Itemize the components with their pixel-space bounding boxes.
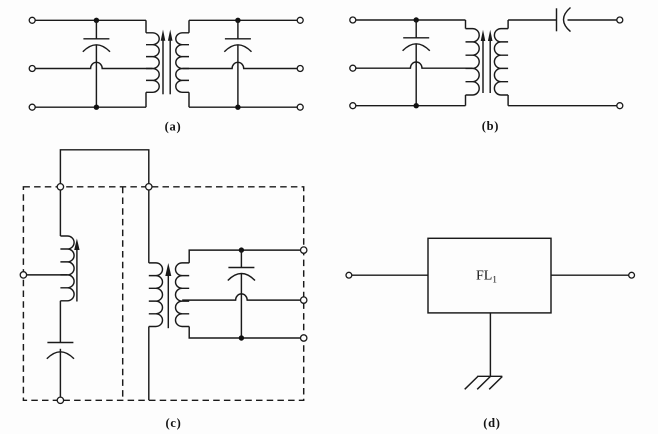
terminal: (c) right port top	[301, 247, 307, 253]
core arrow of transformer T1 (c)	[167, 275, 169, 328]
terminal: (b) top-left port	[350, 17, 356, 23]
wire: (a) middle line left with crossover hop	[35, 62, 152, 68]
inductor: (c) transformer right winding (tapped)	[175, 263, 189, 327]
junction: (a) bottom-right node dot	[235, 105, 240, 110]
inductor L1 (c) tapped coil	[60, 236, 74, 301]
terminal: (a) bottom-right port	[297, 104, 303, 110]
capacitor C2 (b) series output capacitor	[556, 8, 558, 31]
terminal: (b) bottom-left port	[350, 103, 356, 109]
capacitor C1 (b) input X-cap	[415, 20, 417, 38]
terminal: (c) right port bottom	[301, 335, 307, 341]
wire: (a) top line left	[35, 19, 146, 21]
terminal: (b) middle-left port	[350, 65, 356, 71]
wire: (b) bottom line left	[356, 105, 466, 107]
core arrow of inductor L1 (c)	[76, 249, 78, 302]
core arrow 1 of transformer T1 (b)	[482, 40, 484, 93]
wire: (c) transformer primary upper lead	[148, 190, 150, 263]
terminal: (d) right port	[629, 272, 635, 278]
junction: (a) top-left node dot	[94, 18, 99, 23]
wire: (b) secondary top lead	[508, 19, 556, 21]
svg-text:(c): (c)	[166, 416, 182, 430]
junction: (a) top-right node dot	[235, 18, 240, 23]
shield partition: dashed divider (c)	[122, 187, 124, 400]
filter module FL1 box (d)	[428, 238, 551, 313]
svg-text:(b): (b)	[482, 119, 499, 133]
wire: (c) secondary top lead	[189, 250, 300, 263]
terminal: (a) middle-left port	[29, 66, 35, 72]
wire: (d) output lead	[551, 274, 629, 276]
wire: (c) tap lead from left port	[27, 274, 68, 276]
terminal: (c) right port middle	[301, 297, 307, 303]
wire: (b) bottom line right	[508, 105, 617, 107]
capacitor C1 (a) left X-cap	[95, 20, 97, 39]
wire: (c) secondary bottom lead	[189, 327, 300, 339]
svg-text:(d): (d)	[483, 416, 500, 430]
wire: (c) secondary middle lead with crossover hop	[182, 294, 300, 300]
terminal: (d) left port	[346, 272, 352, 278]
wire: (d) ground lead	[489, 313, 491, 376]
junction: (b) top node dot	[414, 17, 419, 22]
wire: (a) top line right	[189, 19, 297, 21]
terminal: (a) top-right port	[297, 17, 303, 23]
inductor: (c) transformer left winding	[149, 263, 163, 327]
svg-text:FL1: FL1	[476, 269, 497, 286]
wire: (a) bottom line right	[189, 106, 297, 108]
terminal: (c) left port on shield	[20, 272, 26, 278]
inductor: (b) transformer secondary winding	[507, 20, 509, 29]
terminal: (a) top-left port	[29, 17, 35, 23]
ground: chassis earth symbol	[477, 375, 502, 377]
wire: (b) output top lead	[568, 19, 617, 21]
inductor: (b) transformer primary winding (tapped)	[465, 20, 467, 29]
terminal: (a) middle-right port	[297, 66, 303, 72]
wire: (c) top feed-through loop	[60, 150, 148, 184]
terminal: (b) top-right port	[617, 17, 623, 23]
wire: (c) transformer primary lower lead to shield	[148, 327, 150, 401]
terminal: (c) bottom bushing on shield	[57, 397, 63, 403]
junction: (a) bottom-left node dot	[94, 105, 99, 110]
svg-text:(a): (a)	[165, 119, 182, 133]
wire: (a) bottom line left	[35, 106, 146, 108]
junction: (b) bottom node dot	[414, 103, 419, 108]
wire: (c) left branch upper lead	[59, 190, 61, 236]
capacitor C2 (c) output X-cap	[240, 250, 242, 267]
terminal: (c) feed-through bushing left	[57, 184, 63, 190]
core arrow 2 of transformer T1 (b)	[489, 40, 491, 93]
inductor: (a) transformer left winding (tapped)	[145, 20, 147, 33]
junction: (c) top node dot	[239, 247, 244, 252]
wire: (d) input lead	[352, 274, 428, 276]
terminal: (b) bottom-right port	[617, 103, 623, 109]
junction: (c) bottom node dot	[239, 335, 244, 340]
wire: (b) middle line with crossover hop	[356, 62, 473, 68]
capacitor C1 (c) series capacitor	[59, 301, 61, 343]
wire: (a) middle line right with crossover hop	[183, 62, 298, 68]
terminal: (c) feed-through bushing right	[146, 184, 152, 190]
wire: (b) top line left	[356, 19, 466, 21]
core arrow 1 of transformer T1 (a)	[162, 40, 164, 95]
inductor: (a) transformer right winding (tapped)	[188, 20, 190, 33]
core arrow 2 of transformer T1 (a)	[169, 40, 171, 95]
terminal: (a) bottom-left port	[29, 104, 35, 110]
shield boundary: dashed enclosure box (c)	[23, 187, 303, 400]
capacitor C2 (a) right X-cap	[237, 20, 239, 39]
